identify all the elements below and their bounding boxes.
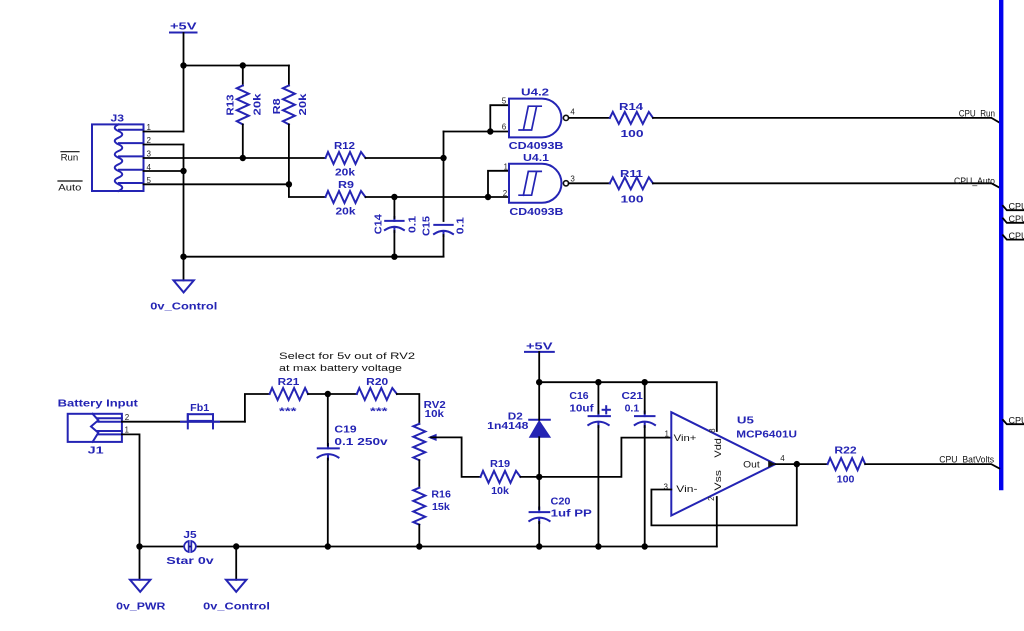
node C16 bottom junction — [595, 543, 601, 549]
svg-text:U5: U5 — [737, 416, 755, 427]
potentiometer RV2 — [413, 424, 425, 460]
node C19 bottom junction — [325, 543, 331, 549]
svg-text:20k: 20k — [336, 207, 357, 218]
svg-text:R13: R13 — [226, 94, 237, 115]
node C14 top junction — [391, 194, 397, 200]
wire +5V rail to Vdd — [539, 382, 717, 431]
node R16 bottom junction — [416, 543, 422, 549]
wire ground stem 0v_PWR — [139, 547, 141, 580]
svg-text:CPU: CPU — [1009, 214, 1024, 224]
capacitor C20 leads — [538, 477, 540, 509]
connector J3 body — [92, 124, 144, 191]
svg-text:C16: C16 — [569, 391, 589, 402]
wire Fb1 up to R21 — [245, 394, 270, 422]
capacitor C15 — [434, 225, 453, 236]
wire R8 top lead — [288, 66, 290, 86]
svg-text:MCP6401U: MCP6401U — [736, 430, 797, 441]
svg-text:J3: J3 — [111, 114, 125, 125]
wire top ground rail — [184, 256, 444, 258]
svg-text:Star 0v: Star 0v — [166, 556, 214, 567]
power +5V bottom symbol — [525, 351, 554, 353]
svg-text:2: 2 — [707, 496, 716, 501]
svg-text:Auto: Auto — [58, 183, 81, 193]
svg-text:CD4093B: CD4093B — [509, 207, 563, 218]
svg-text:R21: R21 — [278, 377, 300, 388]
svg-text:6: 6 — [502, 123, 507, 132]
node C19 top junction — [325, 391, 331, 397]
svg-text:0.1: 0.1 — [456, 217, 467, 235]
capacitor C21 — [635, 412, 655, 428]
resistor R19 — [481, 471, 521, 483]
node R8 pin5 junction — [286, 181, 292, 187]
node C16 top junction — [595, 379, 601, 385]
wire bus entry CPU 4 — [1003, 420, 1024, 424]
svg-text:0.1: 0.1 — [408, 215, 419, 233]
svg-text:R11: R11 — [620, 169, 644, 180]
capacitor C14 leads — [393, 197, 395, 218]
wire ground drop from pin2 — [183, 145, 185, 257]
svg-text:R12: R12 — [334, 141, 355, 152]
bus vertical blue — [999, 0, 1003, 488]
resistor R14 — [610, 112, 653, 124]
node C14 bottom junction — [391, 254, 397, 260]
svg-text:0.1 250v: 0.1 250v — [334, 437, 388, 448]
svg-text:2: 2 — [125, 413, 130, 422]
wire J1 pin2 to Fb1 — [122, 421, 245, 423]
wire J3 pin1 — [144, 131, 184, 133]
wire ground stem 0v_Control top — [183, 257, 185, 281]
svg-text:Select for 5v out of RV2: Select for 5v out of RV2 — [279, 351, 415, 361]
svg-text:20k: 20k — [335, 168, 356, 179]
svg-text:3: 3 — [570, 175, 575, 184]
resistor R16 — [413, 488, 425, 525]
resistor R12 — [326, 152, 366, 164]
power +5V top symbol — [170, 32, 197, 34]
wire +5V bottom stem — [538, 352, 540, 382]
capacitor C15 bottom lead — [443, 235, 445, 257]
connector J5 symbol — [184, 541, 196, 552]
resistor R9 — [326, 191, 366, 203]
svg-text:CPU_BatVolts: CPU_BatVolts — [939, 455, 994, 465]
wire U5 output to R22 — [775, 463, 827, 465]
connector J1 body — [68, 414, 122, 442]
op-amp U4.1 output bubble — [563, 181, 568, 186]
wire RV2 bottom to R16 — [418, 460, 420, 488]
svg-text:R9: R9 — [338, 180, 355, 191]
svg-text:0v_Control: 0v_Control — [150, 302, 217, 313]
op-amp U5 output tip mark — [768, 461, 775, 468]
svg-text:CPU_Auto: CPU_Auto — [954, 176, 995, 186]
wire J3 pin4 — [144, 170, 184, 172]
svg-text:R19: R19 — [490, 459, 511, 470]
svg-text:CPU_Run: CPU_Run — [959, 109, 995, 119]
op-amp U5 triangle — [671, 412, 775, 515]
wire +5V horizontal to R13 R8 — [184, 65, 289, 67]
svg-text:C20: C20 — [551, 497, 571, 508]
wire R8 jog down to R9 — [289, 184, 326, 197]
wire R13 bottom lead — [242, 124, 244, 158]
svg-text:1: 1 — [125, 426, 130, 435]
capacitor C20 — [529, 508, 549, 524]
wire J3 pin3 to R12 — [144, 157, 326, 159]
wire U4.1 input tie — [488, 171, 509, 197]
wire R22 to bus CPU_BatVolts — [865, 464, 999, 468]
wire R13 top lead — [242, 66, 244, 86]
capacitor C16 leads — [597, 382, 599, 413]
svg-text:***: *** — [279, 407, 297, 418]
svg-text:8: 8 — [708, 428, 717, 433]
wire U4.1 output — [569, 182, 610, 184]
node R13 top junction — [240, 62, 246, 68]
svg-text:100: 100 — [837, 474, 855, 485]
svg-text:Out: Out — [743, 460, 760, 470]
capacitor C19 leads — [327, 394, 329, 446]
resistor R8 — [283, 86, 295, 125]
capacitor C16 — [588, 412, 610, 428]
op-amp U4.1 NAND gate body — [509, 164, 561, 203]
resistor R20 — [357, 388, 397, 400]
resistor R21 — [270, 388, 308, 400]
svg-text:C14: C14 — [374, 214, 385, 234]
svg-text:1: 1 — [665, 430, 670, 439]
wire C15 net vertical — [443, 132, 445, 222]
wire U4.2 pin6 horizontal — [444, 131, 510, 133]
potentiometer RV2 wiper arrow — [428, 434, 437, 441]
svg-text:CD4093B: CD4093B — [509, 141, 564, 152]
diode D2 — [529, 420, 550, 437]
svg-text:J1: J1 — [88, 446, 105, 457]
svg-text:1uf PP: 1uf PP — [551, 509, 593, 520]
svg-text:C19: C19 — [334, 425, 357, 436]
wire R19 node to Vin+ — [539, 438, 671, 477]
wire R9 to U4.1 input — [366, 196, 510, 198]
svg-text:R22: R22 — [834, 446, 857, 457]
svg-text:C15: C15 — [422, 216, 433, 236]
node U4.2 pin6 junction — [487, 128, 493, 134]
svg-text:1n4148: 1n4148 — [487, 421, 529, 432]
node U4.1 pin2 junction — [485, 194, 491, 200]
node +5V bottom junction — [536, 379, 542, 385]
wire bus entry CPU 1 — [1003, 206, 1024, 210]
svg-text:20k: 20k — [298, 93, 309, 116]
wire U4.2 output — [569, 117, 610, 119]
ferrite bead Fb1 — [181, 414, 219, 428]
svg-text:Run: Run — [61, 153, 79, 163]
svg-text:4: 4 — [570, 108, 575, 117]
svg-text:0.1: 0.1 — [625, 404, 640, 415]
wire J1 pin1 down to star rail — [122, 434, 140, 546]
node 0v_Control rail junction — [233, 543, 239, 549]
capacitor C16 plus sign — [603, 406, 610, 413]
svg-text:0v_PWR: 0v_PWR — [116, 601, 166, 612]
svg-text:Vss: Vss — [713, 469, 723, 490]
svg-text:CPU: CPU — [1009, 415, 1024, 425]
svg-text:20k: 20k — [253, 93, 264, 116]
wire U5 feedback Vin- loop — [651, 464, 796, 525]
resistor R13 — [237, 86, 249, 125]
svg-text:5: 5 — [502, 97, 507, 106]
wire J3 pin2 — [144, 144, 184, 146]
svg-text:2: 2 — [503, 189, 508, 198]
node C21 bottom junction — [642, 543, 648, 549]
wire R20 to RV2 — [397, 394, 419, 424]
ground 0v_PWR triangle — [130, 580, 150, 592]
svg-text:Vin-: Vin- — [676, 484, 697, 494]
wire bus entry CPU 3 — [1003, 235, 1024, 239]
wire J3 pin5 to R8 — [144, 183, 289, 185]
capacitor C14 — [385, 217, 404, 232]
svg-text:Vin+: Vin+ — [674, 433, 697, 443]
resistor R11 — [610, 177, 653, 189]
svg-text:J5: J5 — [183, 530, 197, 541]
node J1 rail junction — [136, 543, 142, 549]
svg-text:1: 1 — [504, 162, 509, 171]
wire U4.2 input tie — [490, 105, 509, 131]
node C21 top junction — [642, 379, 648, 385]
svg-text:U4.1: U4.1 — [523, 153, 550, 164]
node J3 pin4 junction — [180, 168, 186, 174]
capacitor C21 leads — [644, 382, 646, 413]
resistor R22 — [828, 458, 866, 470]
node C20 bottom junction — [536, 543, 542, 549]
wire ground stem 0v_Control bottom — [235, 547, 237, 580]
node U5 feedback junction — [794, 461, 800, 467]
wire R8 bottom lead to pin5 net — [288, 124, 290, 184]
svg-text:***: *** — [370, 407, 388, 418]
svg-text:Battery Input: Battery Input — [58, 398, 139, 409]
wire R19 to D2 junction — [520, 476, 539, 478]
svg-text:10k: 10k — [491, 486, 509, 497]
wire bus entry CPU 2 — [1003, 218, 1024, 222]
node +5V stem junction — [180, 62, 186, 68]
wire R12 to C15 node — [366, 157, 444, 159]
svg-text:CPU: CPU — [1009, 231, 1024, 241]
svg-text:at max battery voltage: at max battery voltage — [279, 363, 402, 373]
wire +5V stem down to J3 pin1 — [183, 33, 185, 132]
svg-text:R14: R14 — [619, 102, 644, 113]
svg-text:U4.2: U4.2 — [521, 87, 550, 98]
wire R21 to R20 — [308, 393, 357, 395]
wire bottom star rail — [140, 546, 717, 548]
op-amp U4.2 output bubble — [563, 115, 568, 120]
ground 0v_Control top triangle — [174, 280, 194, 292]
node D2 anode junction — [536, 474, 542, 480]
wire RV2 wiper to R19 — [431, 437, 481, 477]
svg-text:10k: 10k — [425, 409, 445, 420]
svg-text:Fb1: Fb1 — [190, 403, 209, 414]
svg-text:100: 100 — [621, 195, 645, 206]
wire R16 bottom to rail — [418, 525, 420, 547]
node R12 output junction — [440, 155, 446, 161]
wire U5 Vss to rail — [716, 497, 718, 547]
op-amp U4.2 NAND gate body — [509, 99, 561, 138]
svg-text:+5V: +5V — [526, 342, 553, 353]
svg-text:0v_Control: 0v_Control — [203, 601, 270, 612]
capacitor C19 — [318, 444, 339, 460]
svg-text:+5V: +5V — [170, 22, 197, 33]
svg-text:CPU: CPU — [1009, 201, 1024, 211]
svg-text:R8: R8 — [272, 98, 283, 115]
diode D2 leads — [538, 382, 540, 420]
ground 0v_Control bottom triangle — [226, 580, 246, 592]
svg-text:4: 4 — [780, 454, 785, 463]
node R13 bottom junction — [240, 155, 246, 161]
svg-text:10uf: 10uf — [569, 404, 594, 415]
svg-text:R20: R20 — [366, 377, 389, 388]
svg-text:100: 100 — [621, 129, 645, 140]
svg-text:15k: 15k — [432, 502, 450, 513]
svg-text:R16: R16 — [431, 490, 451, 501]
svg-text:Vdd: Vdd — [713, 438, 723, 458]
node ground rail left junction — [180, 254, 186, 260]
svg-text:C21: C21 — [622, 391, 644, 402]
wire R14 to bus CPU_Run — [653, 118, 999, 123]
wire R11 to bus CPU_Auto — [653, 183, 999, 187]
